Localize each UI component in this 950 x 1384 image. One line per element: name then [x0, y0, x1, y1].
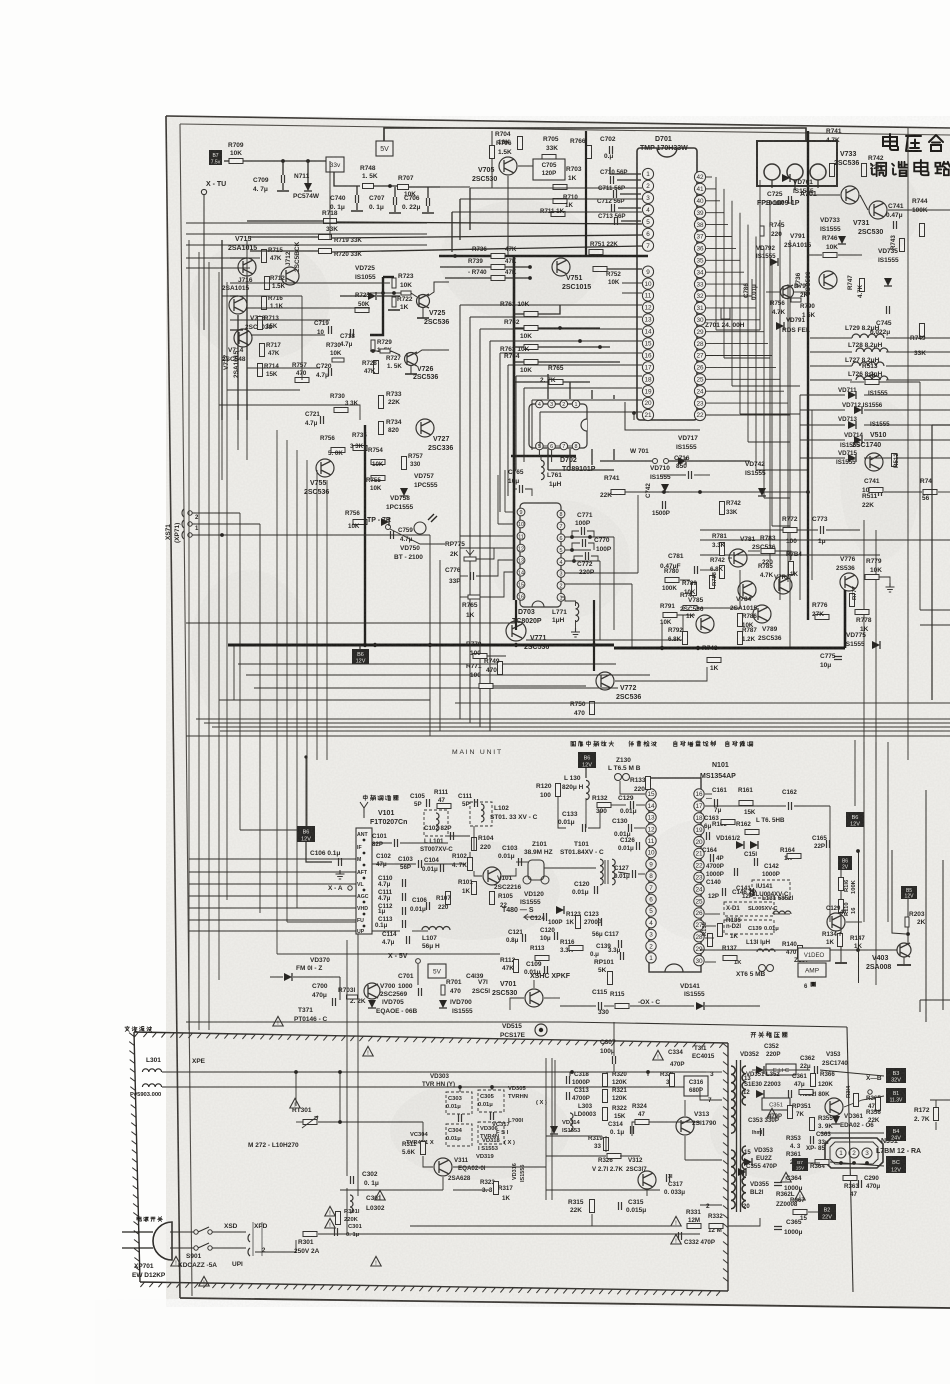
resistor R711 1K — [551, 212, 565, 217]
D701 pin 13 — [642, 314, 653, 325]
capacitor C711 56P — [614, 190, 617, 198]
scan grain overlay — [0, 0, 1, 1]
nested L wires lower left — [239, 513, 241, 830]
wires caps to pins — [617, 179, 641, 181]
inner frame left line — [180, 124, 192, 1296]
resistor R736 47K — [491, 254, 505, 259]
resistor R706 1.5K — [490, 146, 495, 159]
wires from XS71 — [192, 512, 240, 514]
diode VD775 IS1555 — [872, 641, 880, 649]
D701 pin 3 — [642, 192, 653, 203]
capacitor C776 33P — [471, 572, 474, 580]
resistor R755 10K — [371, 476, 385, 481]
right edge partial box — [932, 424, 950, 426]
transistor V731 2SC530 — [869, 201, 887, 219]
resistor base V725 — [401, 291, 411, 295]
D701 pin 33 — [694, 279, 705, 290]
D703 left pins 9-16 — [517, 508, 525, 516]
tuner connector strip — [356, 828, 372, 934]
resistor R781 3.3K — [720, 543, 725, 556]
transistor V727 2SC336 — [416, 419, 434, 437]
D701 pin 7 — [642, 240, 653, 251]
resistor R101 1K — [472, 882, 477, 895]
video amp boxes — [798, 948, 830, 961]
wires right edge to pins — [829, 806, 831, 922]
switching block thin border right — [847, 1027, 853, 1292]
wire top input — [224, 160, 229, 162]
diode VD756 — [381, 518, 389, 526]
drops from mains to varistor boxes — [459, 1087, 461, 1092]
right pins fan wires — [706, 176, 712, 178]
coil L726 8.2uH — [856, 376, 888, 380]
transistor J712 — [281, 267, 299, 285]
chinese tuner label — [363, 795, 367, 800]
resistor R778 1K — [855, 610, 869, 615]
D701 pin 32 — [694, 290, 705, 301]
capacitor C741 0.47u — [894, 221, 897, 229]
resistor R754 10K — [371, 460, 385, 465]
long wires y1156 etc — [546, 1155, 606, 1157]
outer frame bottom line — [180, 1298, 950, 1308]
resistor R717 47K — [260, 344, 265, 357]
capacitor C334 470P triangle — [653, 1050, 663, 1060]
resistor R727 1.5K — [380, 349, 390, 353]
verticals from main unit to PSU — [346, 1035, 348, 1176]
junction dots thick bus — [373, 643, 377, 647]
capacitor C106b 0.01u — [427, 902, 430, 910]
resistor R746 10K — [823, 253, 837, 258]
diode VD713 IS1555 — [848, 421, 856, 429]
transformer T301 secondary winding — [742, 1066, 746, 1105]
wire V705 emitter down — [507, 176, 509, 256]
D701 pin 40 — [694, 195, 705, 206]
resistor R752 10K — [593, 267, 607, 272]
transistor V101 2SC2216 — [483, 867, 501, 885]
capacitor C759 4.7u — [391, 531, 394, 539]
line filter coils — [142, 1069, 161, 1072]
capacitor C718 4.7u — [351, 329, 354, 337]
capacitor C710 56P — [611, 176, 614, 184]
transformer T301 primary winding — [731, 1066, 735, 1133]
coil wires — [810, 337, 852, 339]
vertical tuner strip to PSU — [357, 934, 359, 1035]
resistor R777 1K — [850, 594, 855, 607]
triangle warn 2 — [781, 1172, 791, 1182]
transistor V713 2SC1038 — [229, 296, 247, 314]
transistor V772 2SC536 — [596, 672, 614, 690]
capacitor C712 56P — [612, 204, 615, 212]
transistor V351 — [825, 1098, 843, 1116]
right long verticals — [863, 520, 865, 760]
wire B5 down — [907, 899, 909, 944]
dashed box X-D1 SL0005XV-C — [724, 902, 774, 916]
terminal box B7 — [209, 150, 222, 165]
thick wire x383 — [370, 277, 383, 335]
resistor R741 4.7K — [830, 164, 835, 177]
resistor R102 4.7K — [468, 858, 473, 871]
resistor R765 2.7K — [549, 380, 563, 385]
transistor V791 — [781, 286, 794, 299]
B6 wire — [306, 842, 332, 862]
long wires into left half — [186, 222, 427, 224]
coil L130 820uH — [586, 780, 589, 799]
transistor V726 2SC536 — [405, 353, 418, 366]
drops C318 C313 — [569, 1072, 571, 1076]
wire R765 — [514, 381, 548, 383]
TP terminal — [386, 525, 391, 530]
wires into tuner strip from left bus — [189, 858, 356, 860]
wire 33v down — [334, 172, 360, 186]
wire X-TU down — [203, 195, 205, 330]
resistor R756 5.6K — [331, 448, 345, 453]
wires bottom center — [560, 1005, 596, 1007]
capacitor C702 — [610, 146, 613, 154]
resistor R729 1.5K — [371, 340, 375, 350]
right area verticals x858 x892 — [858, 851, 860, 983]
resistor R703 1K — [553, 185, 567, 190]
wires XSD to fuse — [255, 1237, 300, 1239]
wire collector V313 — [684, 1100, 686, 1116]
resistor R766 — [587, 146, 592, 159]
capacitor C721 4.7u — [321, 416, 324, 424]
resistor R779 10K — [865, 575, 879, 580]
D701 pin 1 — [642, 168, 653, 179]
thick vertical x514 — [513, 256, 516, 600]
verticals x770-805 region — [769, 200, 771, 560]
staircase wires to D701 left pins lower — [622, 282, 642, 284]
capacitor C745 0.022u — [887, 306, 890, 314]
capacitor C706 0.22u — [427, 198, 430, 206]
caps in varistor row — [459, 1114, 462, 1122]
warning triangle fuse — [371, 1256, 381, 1266]
capacitor C775 10u — [834, 657, 842, 660]
left vertical bus bundle — [188, 240, 190, 1030]
D701 pin 28 — [694, 338, 705, 349]
wires right cluster — [808, 194, 840, 196]
capacitor C741b 1000P — [879, 488, 882, 496]
module A701 FPS-1009-1P outline — [757, 141, 837, 186]
wires pins 2-4 verticals — [469, 188, 471, 230]
long horizontal y727 — [212, 726, 950, 728]
wires pins 16 17 — [705, 793, 712, 795]
D702 top pins 4 3 2 1 — [536, 400, 544, 408]
D701 pin 25 — [694, 374, 705, 385]
D701 pin 34 — [694, 267, 705, 278]
D701 pin 21 — [642, 409, 653, 420]
wire R513 — [850, 381, 864, 383]
diode VD725 — [368, 292, 376, 300]
resistor R748b 1K — [707, 658, 721, 663]
D701 pin 36 — [694, 243, 705, 254]
dashed box X-D2 — [724, 920, 774, 934]
thick horizontal y645 — [228, 644, 614, 647]
resistor R750 470 — [590, 702, 595, 715]
label VD318 area wires — [554, 1060, 556, 1130]
transistor V725 2SC536 — [417, 295, 430, 308]
transistor V201 right cluster — [827, 913, 845, 931]
N351 pins 1 2 3 — [836, 1148, 846, 1158]
capacitor C781 0.47uF — [695, 566, 698, 574]
D701 pin 29 — [694, 326, 705, 337]
capacitor C771 100P — [582, 527, 585, 535]
wire R718 line to pin5 — [247, 220, 323, 222]
D701 pin 18 — [642, 374, 653, 385]
capacitor C773 1u — [821, 526, 824, 534]
transistor V789 2SC536 — [753, 605, 771, 623]
D701 pin 31 — [694, 302, 705, 313]
R761-R764 ladder — [524, 312, 538, 317]
terminal B4 24V — [886, 1126, 906, 1141]
capacitor C129 0.01u — [631, 801, 634, 809]
wire R367 B2 — [808, 1211, 818, 1213]
B6 12V box mid — [352, 649, 369, 664]
wire bus y492 — [625, 491, 808, 493]
transistor V784 2SA1015 — [738, 581, 756, 599]
long horizontal y1022 — [186, 1021, 566, 1023]
transistor V771 2SC536 — [506, 621, 526, 641]
resistor R739 47K — [491, 265, 505, 270]
box 33v — [326, 157, 344, 172]
resistor R709 — [229, 159, 243, 164]
box 5V — [376, 141, 393, 156]
long horizontal y1033 — [192, 1033, 728, 1043]
wire R720 line to pin7 — [250, 250, 318, 252]
transistor V733 — [841, 186, 859, 204]
long lines y530 region — [239, 512, 241, 514]
resistor R133 220 — [646, 777, 651, 790]
long horizontal y723 — [204, 722, 950, 724]
left bundle horizontals upper — [189, 239, 247, 241]
long horizontal y675 — [246, 674, 650, 676]
transistor V736 2SC536 — [819, 271, 837, 289]
outer frame top line — [166, 116, 950, 128]
D701 pin 17 — [642, 362, 653, 373]
resistor R723 10K — [392, 278, 396, 288]
D701 pin 2 — [642, 180, 653, 191]
triangle warn 3 — [795, 1190, 805, 1200]
wires bottom right PSU — [728, 1218, 760, 1226]
svg-text:P#5903.000: P#5903.000 — [130, 1092, 161, 1098]
resistor RP775 2K pot — [464, 557, 476, 561]
coil L729 8.2uH — [852, 334, 884, 338]
wires V791 cluster — [766, 291, 780, 293]
diode VD711 IS1555 — [848, 391, 856, 399]
D701 pin 15 — [642, 338, 653, 349]
resistor R120 100 — [556, 784, 561, 797]
capacitor C130 0.01u — [629, 824, 632, 832]
D702 bottom pins 5 6 7 8 — [536, 442, 544, 450]
capacitor C713 56P — [615, 217, 618, 225]
resistor R743b 56K — [923, 490, 937, 495]
resistor R719 33K — [319, 235, 332, 240]
wires D702 bottom — [547, 449, 549, 470]
resistor R749b 470 — [498, 662, 503, 675]
warning triangle RT301 — [290, 1098, 300, 1108]
D703 right pins 8-1 — [557, 510, 565, 518]
wire R748-R707 — [374, 185, 398, 187]
PSU hatched border top — [134, 1032, 728, 1043]
resistor R512 vertical — [892, 454, 897, 467]
transistor V701 2SC530 — [525, 989, 543, 1007]
lower left horizontals — [219, 699, 430, 701]
wire R706 down — [491, 159, 493, 188]
D701 pin 35 — [694, 255, 705, 266]
nested verticals descending from staircase — [459, 305, 461, 719]
transistor V700 2SC2569 — [364, 983, 380, 999]
resistor R704 10K — [518, 137, 523, 150]
wire fuse right — [318, 1233, 700, 1235]
capacitor C765 10u — [520, 485, 523, 493]
resistor R132 390 — [597, 803, 611, 808]
resistor R788 vertical — [710, 576, 715, 589]
coil L107 56uH — [422, 927, 450, 931]
capacitor C720 4.7u — [329, 368, 332, 376]
resistor R742b 33K — [720, 502, 725, 515]
wire y530 run — [700, 529, 783, 531]
antenna symbol — [363, 808, 365, 818]
terminal B2 22V — [818, 1204, 836, 1220]
wire C307 — [613, 1022, 615, 1056]
D701 pin 23 — [694, 398, 705, 409]
A701 pin leads — [771, 180, 773, 188]
transistor V705 2SC530 — [499, 157, 517, 175]
IC N351 L7BM12-RA outline — [825, 1138, 883, 1168]
long horizontal y736 — [186, 735, 950, 737]
resistor R107 220 — [446, 892, 451, 905]
upper-left area extra horizontals — [230, 282, 390, 284]
diode VD715 IS1555 — [848, 454, 856, 462]
terminal B3 32V — [886, 1068, 906, 1083]
resistor R735 3.3K — [353, 446, 367, 451]
capacitor C719 10 — [329, 326, 332, 334]
thick vertical bus x808 — [807, 131, 809, 620]
crystal Z701 24.00H — [721, 308, 730, 319]
terminal box B6 12V left — [297, 826, 315, 842]
resistor R772 100 — [783, 528, 797, 533]
D701 pin 4 — [642, 204, 653, 215]
resistor R730a 10K — [332, 358, 344, 362]
label 开关稳压器 — [751, 1033, 756, 1038]
D701 pin 37 — [694, 231, 705, 242]
D701 pin 22 — [694, 409, 705, 420]
D701 pin 9 — [642, 266, 653, 277]
resistor R783 220 — [761, 549, 775, 554]
D701 pin 12 — [642, 302, 653, 313]
D701 pin 30 — [694, 314, 705, 325]
black box B6 right — [846, 812, 864, 827]
long horizontal y623 — [186, 622, 516, 624]
resistor R776 27K — [815, 615, 829, 620]
resistor R770 100 — [473, 654, 487, 659]
wire y492 right — [884, 491, 922, 493]
resistor R716 1.1K — [262, 297, 267, 310]
wire R779 gnd — [879, 577, 890, 583]
thick wire under D702 — [511, 455, 576, 458]
IC D703 TC9020P body — [520, 503, 561, 607]
resistor R722 1K — [392, 297, 396, 307]
resistor R733 22K — [379, 396, 384, 409]
diode VD714 IS1555 — [854, 436, 862, 444]
wires T101 to N101 — [618, 872, 630, 874]
N101 right pins 16-30 — [694, 789, 704, 799]
LED VD750 BT-2100 — [414, 522, 426, 534]
resistor R789 10K — [692, 583, 697, 596]
D702 pin links — [543, 403, 548, 405]
resistor R513 1K — [865, 380, 879, 385]
wire R172 — [935, 1100, 937, 1108]
svg-text:EW D12KP: EW D12KP — [132, 1272, 166, 1279]
PSU internal wires — [409, 1122, 411, 1136]
resistor R742 22K — [862, 164, 867, 177]
black box B6 2V — [838, 856, 852, 870]
resistor R749 33K — [920, 324, 925, 337]
resistor R741b 22K — [611, 490, 625, 495]
right verticals x926 x943 — [925, 790, 927, 1022]
diode VD120 — [556, 906, 564, 914]
long horizontal y703 — [455, 702, 950, 704]
capacitor C104 0.01u — [441, 864, 444, 872]
wire V726 emitter collector — [410, 366, 412, 374]
D701 pin 39 — [694, 207, 705, 218]
wire to B1 — [844, 1096, 884, 1107]
wire loop pin20-21 — [625, 402, 700, 430]
chinese annotation — [571, 741, 576, 746]
resistor R780 100K — [665, 578, 679, 583]
wire base V725 — [370, 292, 401, 294]
capacitor C351 470P box — [762, 1098, 790, 1110]
resistor R720 33K — [319, 249, 332, 254]
switching block thin border top — [566, 1022, 847, 1027]
D701 pin 38 — [694, 219, 705, 230]
PSU hatched border left — [134, 1032, 140, 1282]
diode VD742 — [758, 488, 766, 496]
resistor R748 1.5K — [363, 184, 374, 189]
black box B5 12V — [901, 886, 917, 899]
diode VD735 — [884, 278, 892, 286]
capacitor C707 0.1u — [394, 197, 397, 205]
resistor R707 10K — [398, 185, 409, 190]
resistor R757b 330 — [402, 457, 407, 470]
upper-left verticals extra — [246, 240, 248, 296]
ladder wires — [514, 313, 524, 315]
outer frame left line — [166, 116, 180, 1298]
transistor V312 2SC3807 — [638, 1171, 656, 1189]
N101 left pins 15-1 — [646, 789, 656, 799]
label 交流滤波 — [125, 1026, 129, 1031]
long horizontal y731 — [220, 730, 950, 732]
wire V725 collector — [428, 282, 449, 296]
wire B6 to Z130 — [585, 768, 587, 778]
resistor R710 1K — [553, 199, 567, 204]
transformer T301 core lines — [736, 1060, 738, 1212]
box ELI C — [766, 1064, 796, 1075]
title 电压合成 — [883, 134, 898, 150]
dashed box L101 ST007XV-C — [424, 810, 448, 836]
box C705 120P — [533, 159, 565, 180]
terminal B1 11.3V — [886, 1088, 906, 1103]
D701 pin 41 — [694, 183, 705, 194]
capacitor C772 220P — [586, 552, 589, 560]
thick vertical x586 — [585, 131, 587, 256]
D701 pin 24 — [694, 386, 705, 397]
D701 pin 11 — [642, 290, 653, 301]
resistor R743 — [900, 239, 905, 252]
main unit top border — [305, 757, 307, 830]
resistor R787 1.2K — [738, 632, 743, 645]
resistor R791 10K — [663, 613, 677, 618]
long wires right mid — [700, 539, 950, 541]
wire to plug area — [357, 1212, 359, 1234]
